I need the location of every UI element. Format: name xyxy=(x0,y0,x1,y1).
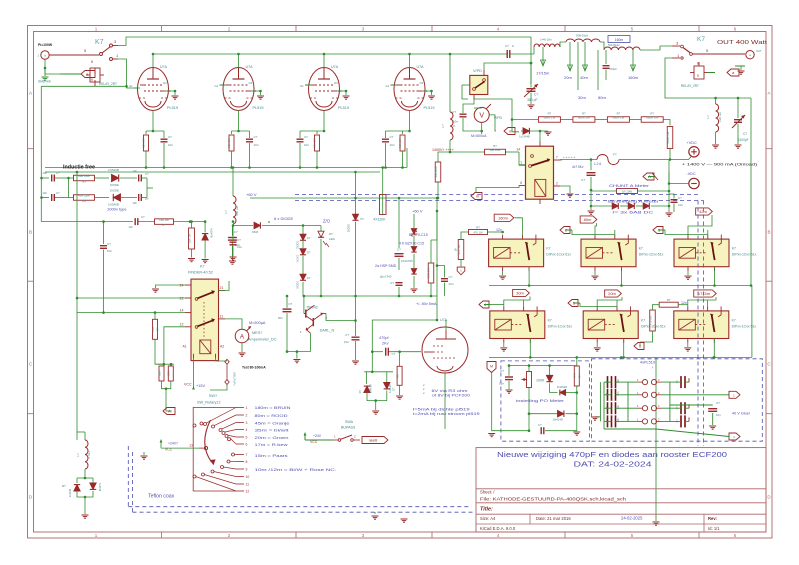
svg-text:13: 13 xyxy=(189,444,193,448)
svg-text:K7: K7 xyxy=(697,36,705,43)
relay K7 DIPxx 20m xyxy=(583,311,638,339)
relay ground 160m xyxy=(502,271,504,275)
heater caps right row 3 xyxy=(681,402,685,414)
ground bottom center xyxy=(374,512,376,514)
tube V3 g2 wire + ground xyxy=(337,91,346,95)
svg-text:40R 25W: 40R 25W xyxy=(78,194,90,198)
rotary pin lines 1-12 xyxy=(236,407,244,409)
resistor 10K 1W above finder xyxy=(191,222,193,228)
svg-text:650 µH: 650 µH xyxy=(235,206,239,216)
tube V1 cathode wire xyxy=(152,111,154,132)
tube V3 grid stub xyxy=(305,84,311,86)
svg-text:C?: C? xyxy=(168,135,172,139)
tube V3 PL519 xyxy=(309,68,340,111)
heater row 3 end stub xyxy=(688,404,690,408)
wire +60 bus down to tube area xyxy=(436,198,438,296)
svg-text:D?: D? xyxy=(392,387,396,391)
rotary contacts lower xyxy=(232,453,235,456)
collector wire right xyxy=(323,313,327,315)
finder contacts xyxy=(195,298,198,301)
wire to diode stack xyxy=(295,225,321,227)
inductor 220uH xyxy=(715,98,717,104)
heater cap right C xyxy=(670,404,713,406)
finder pin12 wire xyxy=(164,327,185,364)
svg-text:C?: C? xyxy=(678,196,682,200)
svg-text:B: B xyxy=(767,230,770,235)
wire right from collector node xyxy=(356,295,437,297)
resistor 4X120K xyxy=(382,168,384,216)
svg-text:C?: C? xyxy=(304,135,308,139)
PO resistor 47K vert xyxy=(574,366,579,386)
svg-text:M=500uA: M=500uA xyxy=(471,134,487,138)
PO potentiometer 100K xyxy=(528,366,530,372)
diode 1x1N4B row feed xyxy=(512,120,519,132)
heater caps right row 4 xyxy=(681,415,685,427)
svg-text:10n: 10n xyxy=(344,340,349,344)
PO top rail xyxy=(576,357,578,365)
svg-text:1x1N4B: 1x1N4B xyxy=(519,135,530,139)
svg-text:17/15m: 17/15m xyxy=(536,71,550,76)
resistor 680R vertical right xyxy=(663,120,670,126)
A meter tag xyxy=(643,173,654,180)
svg-text:8: 8 xyxy=(91,60,93,64)
variable cap C 350pF xyxy=(530,63,532,88)
tube wires down xyxy=(444,374,446,430)
svg-text:40 V Gloei: 40 V Gloei xyxy=(732,412,750,416)
svg-text:100 10W: 100 10W xyxy=(489,148,501,152)
resistor 47K 1W top right of stack xyxy=(458,240,464,260)
svg-text:K7: K7 xyxy=(95,39,104,46)
svg-text:S: S xyxy=(452,125,456,127)
capacitor C 10n mid xyxy=(355,296,357,336)
svg-text:C?: C? xyxy=(392,352,396,356)
svg-text:160m: 160m xyxy=(628,75,639,80)
svg-text:10n: 10n xyxy=(716,413,721,417)
variable cap 1100pF xyxy=(737,98,739,118)
svg-text:+/- 80v 5mA: +/- 80v 5mA xyxy=(416,302,437,306)
svg-text:40m: 40m xyxy=(580,75,588,80)
finder pin22 wire to left spine xyxy=(77,297,185,299)
svg-text:4x7 5Kv: 4x7 5Kv xyxy=(572,165,584,169)
tap 80m xyxy=(597,50,599,90)
heater bottom wire xyxy=(603,421,605,429)
svg-text:10K 1W: 10K 1W xyxy=(187,233,191,243)
tube V4 anode wire xyxy=(409,54,411,68)
+60V rail xyxy=(250,197,438,199)
diode pair 1x4148 bottom xyxy=(364,371,393,373)
svg-text:35m = bl/wit: 35m = bl/wit xyxy=(255,428,290,433)
out relay coil xyxy=(694,66,704,79)
band tag 1715m xyxy=(694,290,717,297)
svg-text:Nieuwe wijziging 470pF en diod: Nieuwe wijziging 470pF en diodes aan roo… xyxy=(497,450,727,459)
diode down mid xyxy=(355,172,357,215)
svg-text:+ 1400 V — 900 mA (Onload): + 1400 V — 900 mA (Onload) xyxy=(682,162,757,166)
svg-text:1x4148: 1x4148 xyxy=(98,483,101,492)
svg-text:9: 9 xyxy=(91,78,93,82)
wire 60V vertical right xyxy=(431,211,437,240)
svg-text:R?: R? xyxy=(617,112,621,116)
out connector xyxy=(746,51,754,59)
tube V1 g2 wire + ground xyxy=(166,91,175,95)
heater row2 wire to tag xyxy=(661,394,729,396)
relay ground 20m xyxy=(596,343,598,347)
capacitor C 10n mid-left xyxy=(231,226,233,236)
svg-text:A2: A2 xyxy=(220,345,224,349)
relay K7 DIPxx 80m xyxy=(581,239,636,267)
svg-text:G1: G1 xyxy=(386,84,390,88)
svg-text:B: B xyxy=(455,248,457,252)
svg-text:Teflon coax: Teflon coax xyxy=(148,494,175,500)
wire -VDC left xyxy=(669,172,689,184)
svg-text:I=2mA bij rust stroom pl519: I=2mA bij rust stroom pl519 xyxy=(413,412,480,416)
resistor 100 1W horizontal xyxy=(155,219,174,225)
tap 40m xyxy=(584,42,586,70)
svg-text:File: KATHODE-GESTUURD-PA-400Q: File: KATHODE-GESTUURD-PA-400QSK.sch.kic… xyxy=(480,496,627,501)
relay ground 30m xyxy=(503,343,505,347)
svg-text:4x1N4B: 4x1N4B xyxy=(209,228,213,238)
svg-text:6 x DIODE: 6 x DIODE xyxy=(274,216,293,221)
svg-text:100 1W: 100 1W xyxy=(313,138,317,148)
heater row 1 end stub xyxy=(688,378,690,382)
relay K7 DIPxx 30m xyxy=(490,311,545,339)
heater caps left row 4 xyxy=(608,415,616,427)
svg-text:1N540B: 1N540B xyxy=(108,168,119,172)
svg-text:10m /12m = Bl/W + Rose NC.: 10m /12m = Bl/W + Rose NC. xyxy=(255,467,337,472)
svg-text:470 5W: 470 5W xyxy=(648,315,652,324)
svg-text:DIODE: DIODE xyxy=(297,241,300,249)
svg-text:80m: 80m xyxy=(598,95,606,100)
cap C 10n right of diodes xyxy=(671,200,678,203)
title block outline xyxy=(476,448,766,532)
cap 15uF 50V xyxy=(398,198,400,248)
wire input to coil xyxy=(45,59,60,74)
svg-text:160m: 160m xyxy=(498,216,509,221)
3 protection diodes xyxy=(591,191,612,206)
svg-text:24: 24 xyxy=(180,284,184,288)
resistor pair 68R xyxy=(158,363,174,365)
svg-text:6: 6 xyxy=(246,443,248,447)
row2 switch wires down to bottom bus xyxy=(529,339,531,358)
resistor 680R #2 xyxy=(573,117,595,123)
svg-text:C?: C? xyxy=(538,423,542,427)
svg-text:100 1W: 100 1W xyxy=(227,138,231,148)
bottom bus under row2 xyxy=(489,356,752,358)
diode 1x1N4B HV xyxy=(521,130,531,132)
resistor R 4K7 xyxy=(397,366,402,385)
resistor 680R #1 xyxy=(538,117,560,123)
svg-text:BUPASS: BUPASS xyxy=(341,426,356,430)
cathode capacitor C4 10n xyxy=(385,131,387,138)
svg-text:M: M xyxy=(490,365,493,369)
tube V4 grid stub xyxy=(391,84,397,86)
relay pin2 ground xyxy=(560,186,570,193)
wire from 103.5 down xyxy=(103,270,105,313)
svg-text:OUT 400 Watt: OUT 400 Watt xyxy=(717,40,768,46)
PO diode 1 down xyxy=(549,366,551,376)
svg-text:100 1W: 100 1W xyxy=(398,138,402,148)
wire row2 xyxy=(42,197,50,199)
svg-text:80m: 80m xyxy=(584,217,592,222)
svg-text:2Kv: 2Kv xyxy=(382,342,389,346)
diode stack 3x xyxy=(300,234,306,240)
capacitor C 50n xyxy=(286,296,288,308)
grounds under chunt xyxy=(590,206,592,210)
svg-text:Size: A4: Size: A4 xyxy=(480,516,496,521)
svg-text:20m: 20m xyxy=(608,291,616,296)
svg-text:1000v type: 1000v type xyxy=(107,207,127,212)
cathode resistor R4 100 1W xyxy=(386,130,410,132)
svg-text:5CHD: 5CHD xyxy=(297,255,300,262)
tube V4 PL519 xyxy=(394,68,425,111)
capacitor C 10n series xyxy=(135,218,138,225)
mid bus between relay rows xyxy=(489,285,751,287)
svg-text:680R 1W: 680R 1W xyxy=(646,116,658,120)
svg-text:Z/O: Z/O xyxy=(323,219,331,224)
svg-text:D606: D606 xyxy=(252,230,259,234)
svg-text:Title:: Title: xyxy=(480,506,493,512)
svg-text:C?: C? xyxy=(534,93,538,97)
svg-text:9: 9 xyxy=(697,74,699,78)
cathode resistor R3 100 1W xyxy=(300,130,324,132)
svg-text:6: 6 xyxy=(520,181,522,185)
svg-text:680R 1W: 680R 1W xyxy=(544,116,556,120)
voltmeter V/PD circle xyxy=(474,107,489,122)
wire out top xyxy=(665,58,751,98)
cap C 10n left of meter xyxy=(460,114,467,117)
tag A bottom xyxy=(166,389,172,411)
rotary left return wire xyxy=(193,408,236,492)
svg-text:180m = BRUIN: 180m = BRUIN xyxy=(255,405,291,410)
tube V2 PL519 xyxy=(223,68,254,111)
svg-text:1N4648: 1N4648 xyxy=(557,385,568,389)
svg-text:DIPxx-1Cxx-51x: DIPxx-1Cxx-51x xyxy=(548,324,573,328)
svg-text:Pi=100W: Pi=100W xyxy=(38,43,53,47)
svg-text:L?: L? xyxy=(441,124,445,128)
svg-text:C?: C? xyxy=(145,172,149,176)
svg-text:L?: L? xyxy=(706,115,710,119)
frame row ticks xyxy=(28,148,34,150)
svg-text:12v: 12v xyxy=(496,228,502,232)
svg-text:K7: K7 xyxy=(546,247,550,251)
svg-text:C?: C? xyxy=(141,215,145,219)
svg-text:30m: 30m xyxy=(578,95,586,100)
resistor 680R #3 xyxy=(607,117,629,123)
svg-text:D?: D? xyxy=(307,251,311,255)
PO cap bottom xyxy=(541,427,544,434)
svg-text:1: 1 xyxy=(520,161,522,165)
left inductor near tube4 bus xyxy=(449,54,451,112)
svg-text:680R 1W: 680R 1W xyxy=(613,116,625,120)
cathode resistor R1 100 1W xyxy=(146,130,164,132)
svg-text:20m: 20m xyxy=(564,75,572,80)
rotary contacts upper xyxy=(204,423,207,426)
heater pair row 1 xyxy=(642,380,647,385)
tube V2 anode wire xyxy=(238,54,240,68)
wire right vertical xyxy=(750,98,752,286)
heater pair row 4 xyxy=(642,419,647,424)
dashed blue lines horizontal xyxy=(295,194,379,196)
tap 17/15m xyxy=(542,47,544,65)
svg-text:100K: 100K xyxy=(536,379,545,383)
svg-text:Date: 21 mar 2016: Date: 21 mar 2016 xyxy=(536,516,571,521)
svg-text:Rev:: Rev: xyxy=(708,516,717,521)
long wire y=221.6 xyxy=(42,221,134,223)
svg-text:10n: 10n xyxy=(168,143,173,147)
heater pair row 2 xyxy=(642,392,647,397)
svg-text:PL519: PL519 xyxy=(424,106,435,110)
band tag 20m xyxy=(605,290,622,297)
svg-text:1x4148: 1x4148 xyxy=(388,384,392,393)
frame column ticks xyxy=(161,26,163,32)
svg-text:10n: 10n xyxy=(499,382,504,386)
coil 3 160m xyxy=(608,36,630,43)
svg-text:G3: G3 xyxy=(334,81,338,85)
left vertical wire to bottom xyxy=(76,172,78,440)
svg-text:Sheet: /: Sheet: / xyxy=(480,490,495,495)
PO diode 2 left xyxy=(560,390,566,396)
finder pin24 ground xyxy=(156,285,186,288)
clamp diode pair 1x4148 xyxy=(74,485,80,491)
svg-text:A1: A1 xyxy=(183,345,187,349)
cap C mid xyxy=(396,283,403,286)
svg-text:G3: G3 xyxy=(163,81,167,85)
svg-text:C?: C? xyxy=(56,191,60,195)
resistor R5 50R 25W xyxy=(69,177,74,179)
wire row1 xyxy=(42,177,50,179)
tag 3 xyxy=(653,227,663,234)
heater caps left row 2 xyxy=(608,389,616,401)
relay ground 42m xyxy=(687,271,689,275)
svg-text:VCC: VCC xyxy=(310,440,318,444)
svg-text:-VDC: -VDC xyxy=(687,172,697,176)
svg-text:10n: 10n xyxy=(304,143,309,147)
tube V4 cathode wire xyxy=(409,111,411,132)
wire top to V/PD xyxy=(530,37,532,50)
svg-text:CHUNT A Meter: CHUNT A Meter xyxy=(609,184,650,188)
cathode bus 2 xyxy=(45,171,380,173)
svg-text:5: 5 xyxy=(246,436,248,440)
svg-text:10n: 10n xyxy=(132,169,137,173)
svg-text:U7A: U7A xyxy=(440,318,448,322)
svg-text:1: 1 xyxy=(246,406,248,410)
tube V2 g2 wire + ground xyxy=(252,91,261,95)
svg-text:15uF/50V: 15uF/50V xyxy=(401,259,413,263)
svg-text:+VDC: +VDC xyxy=(687,141,697,145)
svg-text:50R 25W: 50R 25W xyxy=(78,174,90,178)
capacitor under coil xyxy=(232,238,234,241)
svg-text:1R 10W: 1R 10W xyxy=(622,190,632,194)
svg-text:D?: D? xyxy=(307,236,311,240)
svg-text:C?: C? xyxy=(716,401,720,405)
svg-text:RELAY_2RT: RELAY_2RT xyxy=(99,82,117,86)
svg-text:47K: 47K xyxy=(573,373,577,378)
svg-text:C?: C? xyxy=(254,135,258,139)
svg-text:50M-25uH: 50M-25uH xyxy=(576,34,588,38)
svg-text:24-02-2025: 24-02-2025 xyxy=(621,516,643,521)
svg-text:10n: 10n xyxy=(132,201,137,205)
diode 4x1N4B xyxy=(204,222,206,233)
svg-text:K7: K7 xyxy=(548,318,552,322)
svg-text:10n: 10n xyxy=(453,120,458,124)
diode D606 6x xyxy=(233,225,253,227)
svg-text:12: 12 xyxy=(180,323,184,327)
svg-text:R?: R? xyxy=(578,374,582,378)
svg-text:C?: C? xyxy=(234,230,238,234)
svg-text:OUT: OUT xyxy=(756,49,762,53)
svg-text:RELAY_2RT: RELAY_2RT xyxy=(681,84,699,88)
svg-text:14: 14 xyxy=(180,309,184,313)
svg-text:220 uH: 220 uH xyxy=(718,112,722,122)
tube V2 cathode wire xyxy=(238,111,240,132)
svg-text:D?: D? xyxy=(361,217,365,221)
svg-text:LED: LED xyxy=(329,237,336,241)
svg-text:K7: K7 xyxy=(639,247,643,251)
relay K7 DIPxx 160m xyxy=(489,239,544,267)
svg-text:11: 11 xyxy=(220,315,224,319)
svg-text:C?: C? xyxy=(581,178,585,182)
svg-text:2: 2 xyxy=(246,414,248,418)
svg-text:1x4148: 1x4148 xyxy=(369,384,373,393)
svg-text:K7: K7 xyxy=(641,318,645,322)
heater pair row 3 xyxy=(642,406,647,411)
svg-text:PL519: PL519 xyxy=(338,106,349,110)
svg-text:A: A xyxy=(29,91,32,96)
capacitor C 10n row2 xyxy=(52,194,55,201)
tag m under meter xyxy=(504,128,515,135)
tag 1 down xyxy=(457,267,465,275)
svg-text:10K 10W: 10K 10W xyxy=(434,166,438,178)
svg-text:1N4148: 1N4148 xyxy=(553,418,564,422)
svg-text:C?: C? xyxy=(288,302,292,306)
svg-text:15m = Paars: 15m = Paars xyxy=(255,453,288,458)
svg-text:SW?: SW? xyxy=(209,394,217,398)
svg-text:680R 1W: 680R 1W xyxy=(578,116,590,120)
cathode resistor R2 100 1W xyxy=(232,130,250,132)
svg-text:KiCad E.D.A. 9.0.0: KiCad E.D.A. 9.0.0 xyxy=(480,526,516,531)
heater caps right row 1 xyxy=(681,376,685,388)
relay ground 80m xyxy=(594,271,596,275)
svg-text:DIODE: DIODE xyxy=(110,189,119,193)
svg-text:10n: 10n xyxy=(390,143,395,147)
relay K7 DIPxx 42m xyxy=(674,239,729,267)
svg-text:SW_Rotary12: SW_Rotary12 xyxy=(197,401,221,405)
svg-text:160m: 160m xyxy=(615,38,624,42)
dashed box instelling PO meter xyxy=(501,361,590,441)
svg-text:naarB: naarB xyxy=(369,439,378,443)
svg-text:C?: C? xyxy=(500,369,504,373)
svg-text:M=500µA: M=500µA xyxy=(249,321,266,325)
svg-text:PL519: PL519 xyxy=(167,106,178,110)
capacitor C 10n row1 xyxy=(52,175,55,182)
svg-text:1 mH: 1 mH xyxy=(87,451,91,458)
svg-text:G3: G3 xyxy=(249,81,253,85)
svg-text:G3: G3 xyxy=(420,81,424,85)
wire VPD to resistor row xyxy=(474,99,512,120)
resistor 47K 1W row2c xyxy=(659,302,678,307)
heater ground left xyxy=(595,416,600,418)
heater vertical buses xyxy=(599,382,601,421)
resistor 100 10W horizontal xyxy=(450,148,484,152)
resistor R9 40R 25W xyxy=(69,197,74,199)
svg-text:C?: C? xyxy=(390,135,394,139)
svg-text:6V via R3 ohm: 6V via R3 ohm xyxy=(432,389,468,393)
svg-text:+24V?: +24V? xyxy=(168,442,178,446)
wires relays to heater box xyxy=(620,357,622,358)
svg-text:Test 80-100mA: Test 80-100mA xyxy=(242,366,266,370)
svg-text:SWA: SWA xyxy=(345,420,354,424)
svg-text:DIODE: DIODE xyxy=(110,183,119,187)
title block lines xyxy=(476,488,766,490)
